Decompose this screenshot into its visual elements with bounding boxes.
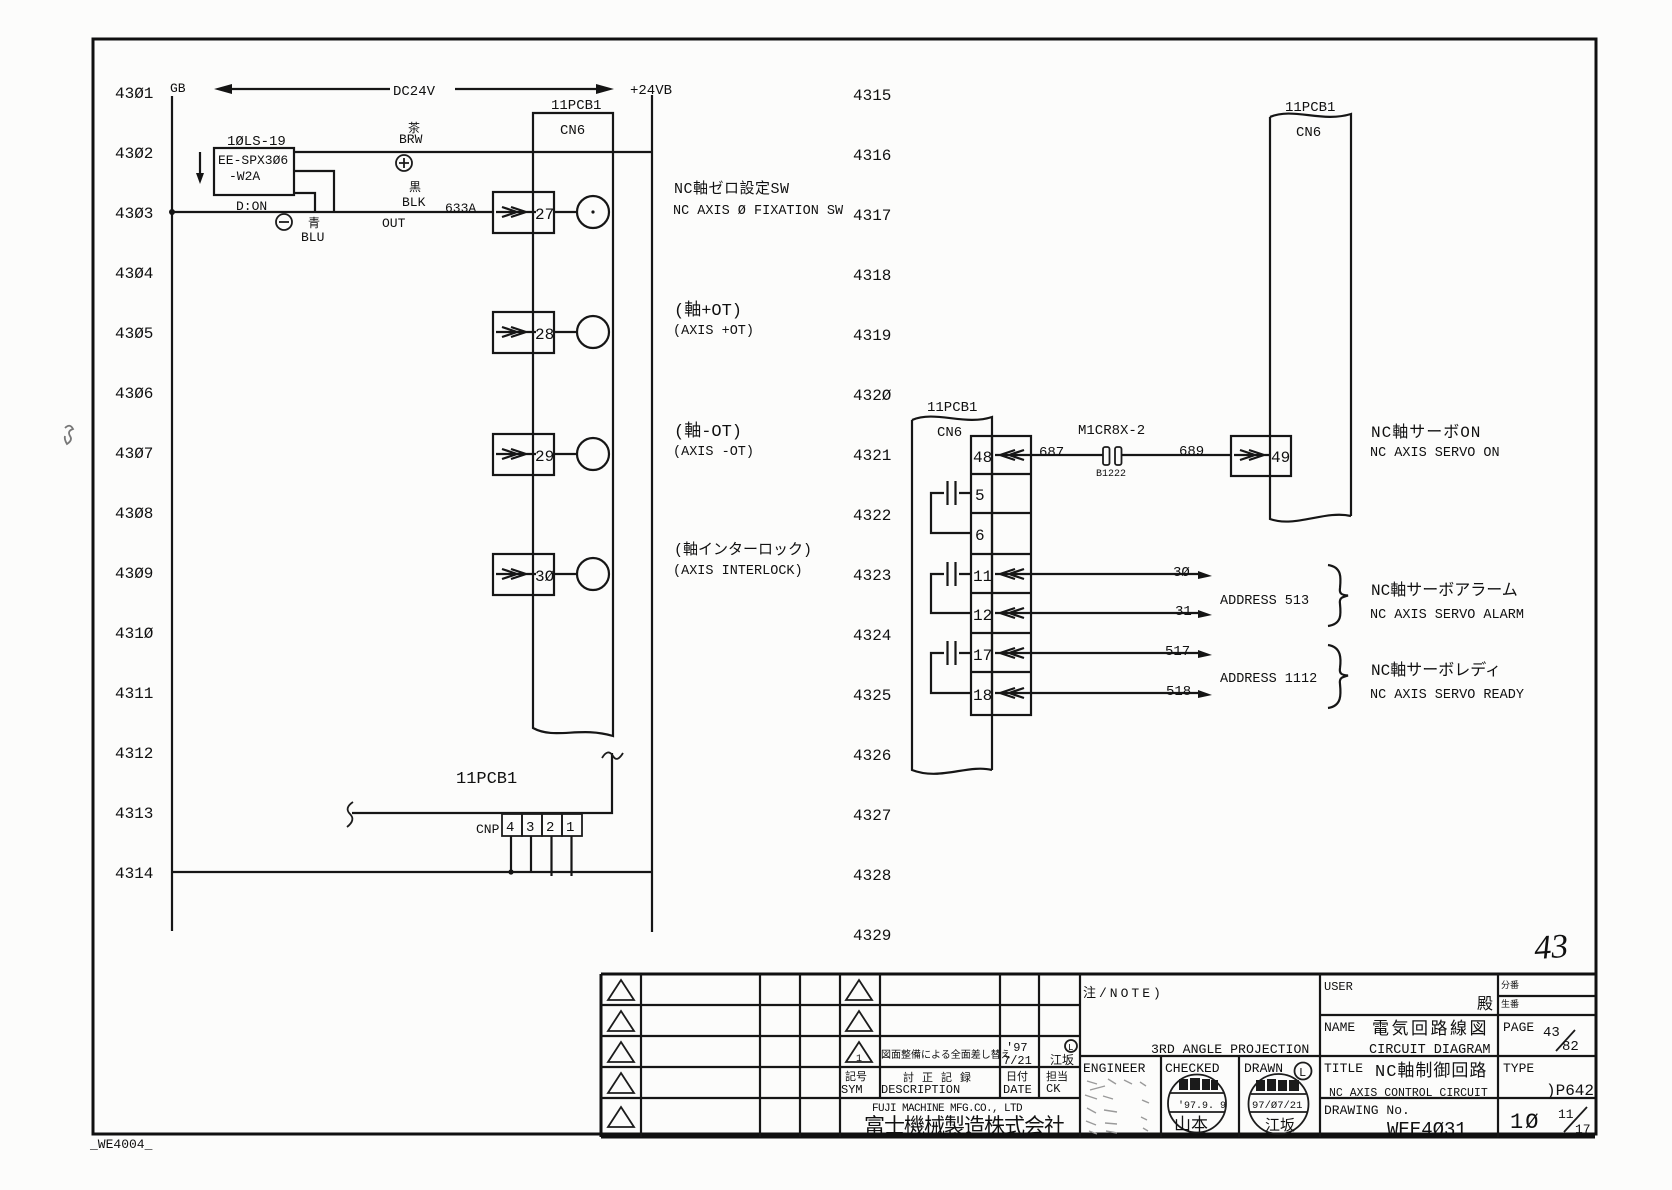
svg-text:-W2A: -W2A [229, 169, 260, 184]
svg-text:(AXIS +OT): (AXIS +OT) [673, 324, 754, 339]
svg-text:NC軸サーボアラーム: NC軸サーボアラーム [1371, 581, 1518, 600]
svg-text:43Ø8: 43Ø8 [115, 505, 153, 523]
connector CNP pin 2 [542, 814, 562, 836]
svg-text:OUT: OUT [382, 216, 406, 231]
revision triangle M1 [846, 980, 872, 1000]
note cell bottom line [1080, 1055, 1595, 1057]
svg-text:(軸インターロック): (軸インターロック) [674, 541, 812, 559]
svg-text:NC AXIS SERVO ALARM: NC AXIS SERVO ALARM [1370, 608, 1524, 623]
sensor beam down arrow [199, 152, 201, 178]
svg-text:4313: 4313 [115, 805, 153, 823]
svg-text:29: 29 [535, 448, 554, 466]
svg-text:4323: 4323 [853, 567, 891, 585]
svg-text:青: 青 [308, 216, 320, 231]
indicator circle pin 27 [577, 196, 609, 228]
arrowhead wire 31 [1198, 610, 1212, 618]
engineer pencil scribbles [1085, 1079, 1149, 1134]
svg-text:CHECKED: CHECKED [1165, 1061, 1220, 1076]
revision CK circled L [1065, 1040, 1077, 1052]
brace servo alarm [1328, 565, 1348, 626]
wire BLU lead from sensor bottom [294, 193, 315, 212]
chevron into pin 29 [496, 449, 536, 459]
wire pin30 to lamp [554, 573, 577, 575]
chevron out of pin 11 [995, 569, 1031, 579]
arrowhead wire 517 [1198, 650, 1212, 658]
svg-text:49: 49 [1271, 449, 1290, 467]
revision triangle L3 [608, 1042, 634, 1062]
svg-text:431Ø: 431Ø [115, 625, 154, 643]
svg-text:27: 27 [535, 206, 554, 224]
svg-text:1Ø: 1Ø [1510, 1110, 1540, 1135]
svg-text:CN6: CN6 [560, 123, 585, 139]
svg-text:3Ø: 3Ø [1173, 565, 1190, 581]
revision triangle M2 [846, 1011, 872, 1031]
wire GB bus vertical [171, 96, 173, 931]
svg-text:17: 17 [973, 647, 992, 665]
wire pin27 to lamp [554, 211, 577, 213]
svg-text:江坂: 江坂 [1050, 1053, 1074, 1068]
svg-text:11PCB1: 11PCB1 [551, 98, 601, 114]
svg-text:ADDRESS 1112: ADDRESS 1112 [1220, 672, 1317, 687]
brace servo ready [1328, 645, 1348, 708]
connector 11PCB1 CN6 (left tall) [533, 113, 613, 736]
revision triangle L5 [608, 1107, 634, 1127]
wire CNP feed with break marks [352, 753, 612, 813]
wire stub CNP4 [510, 836, 512, 872]
svg-text:82: 82 [1562, 1039, 1579, 1055]
contact bars 5-6 [948, 481, 956, 505]
svg-text:11: 11 [973, 568, 992, 586]
pin box 27 [493, 192, 554, 233]
pin box 29 [493, 434, 554, 475]
wire pin28 to lamp [554, 331, 577, 333]
title block rows left tables [601, 1005, 1080, 1098]
relay contact bars [1103, 447, 1110, 465]
revision triangle M3 with 1 [846, 1042, 872, 1062]
connector CNP pin 4 [502, 814, 522, 836]
svg-text:L: L [1299, 1066, 1306, 1080]
chevron out of pin 12 [995, 608, 1031, 618]
svg-text:17: 17 [1575, 1122, 1591, 1137]
user cell rows [1320, 996, 1595, 1098]
svg-text:BRW: BRW [399, 132, 423, 147]
svg-text:4: 4 [506, 820, 514, 836]
svg-text:DC24V: DC24V [393, 84, 436, 100]
svg-text:GB: GB [170, 81, 186, 96]
svg-text:4327: 4327 [853, 807, 891, 825]
svg-text:43: 43 [1533, 928, 1569, 967]
svg-text:B1222: B1222 [1096, 469, 1126, 480]
svg-text:4326: 4326 [853, 747, 891, 765]
svg-text:DRAWING No.: DRAWING No. [1324, 1103, 1410, 1118]
svg-text:BLU: BLU [301, 230, 324, 245]
svg-text:SYM: SYM [841, 1083, 863, 1097]
svg-text:11: 11 [1558, 1107, 1574, 1122]
svg-text:'97.9. 9: '97.9. 9 [1178, 1100, 1226, 1112]
pin box 49 [1231, 436, 1291, 476]
svg-text:殿: 殿 [1477, 995, 1493, 1014]
break squiggle on horizontal left end [347, 802, 353, 827]
svg-text:3: 3 [526, 820, 534, 836]
connector CNP pin 1 [562, 814, 582, 836]
svg-text:NC軸サーボON: NC軸サーボON [1371, 423, 1481, 442]
svg-text:DESCRIPTION: DESCRIPTION [881, 1083, 960, 1097]
contact link pins 17-18 [931, 653, 971, 693]
svg-text:BLK: BLK [402, 195, 426, 210]
svg-text:518: 518 [1166, 684, 1191, 700]
drawn circled L [1295, 1063, 1312, 1080]
svg-text:(軸+OT): (軸+OT) [674, 300, 742, 321]
stamp DRAWN circle [1249, 1074, 1309, 1134]
svg-text:43Ø6: 43Ø6 [115, 385, 153, 403]
svg-text:NC AXIS SERVO READY: NC AXIS SERVO READY [1370, 688, 1524, 703]
svg-text:(AXIS INTERLOCK): (AXIS INTERLOCK) [673, 564, 803, 579]
minus terminal symbol [276, 214, 292, 230]
wire pin29 to lamp [554, 453, 577, 455]
pin grid CN6 [971, 436, 1031, 715]
svg-text:富士機械製造株式会社: 富士機械製造株式会社 [864, 1115, 1065, 1140]
wire 517 [1031, 652, 1202, 654]
svg-text:97/Ø7/21: 97/Ø7/21 [1252, 1100, 1302, 1112]
contact bars 17-18 [948, 641, 956, 665]
wire stub CNP2 [550, 836, 552, 876]
contact link pins 11-12 [931, 574, 971, 613]
approval columns [1161, 974, 1498, 1137]
svg-text:48: 48 [973, 449, 992, 467]
svg-text:4324: 4324 [853, 627, 891, 645]
revision triangle L1 [608, 980, 634, 1000]
svg-text:CK: CK [1046, 1082, 1061, 1096]
svg-text:注/NOTE): 注/NOTE) [1083, 986, 1164, 1001]
pin grid inner vertical [991, 436, 993, 715]
wire 633A row 4303 [172, 211, 493, 213]
indicator circle pin 29 [577, 438, 609, 470]
svg-text:CN6: CN6 [1296, 125, 1321, 141]
svg-text:NC軸サーボレディ: NC軸サーボレディ [1371, 660, 1501, 680]
svg-text:NC AXIS CONTROL CIRCUIT: NC AXIS CONTROL CIRCUIT [1329, 1087, 1488, 1100]
chevron into pin 28 [496, 327, 536, 337]
svg-text:生番: 生番 [1501, 998, 1519, 1010]
connector 11PCB1 CN6 (mid block) [912, 417, 992, 774]
break squiggle on vertical [602, 752, 623, 758]
svg-text:NC AXIS SERVO ON: NC AXIS SERVO ON [1370, 446, 1500, 461]
svg-text:517: 517 [1165, 644, 1190, 660]
svg-text:TITLE: TITLE [1324, 1061, 1363, 1076]
svg-text:DATE: DATE [1003, 1083, 1032, 1097]
svg-text:4316: 4316 [853, 147, 891, 165]
stamp CHECKED dept jp [1179, 1078, 1218, 1090]
svg-text:7/21: 7/21 [1003, 1054, 1032, 1068]
svg-text:432Ø: 432Ø [853, 387, 892, 405]
svg-text:(AXIS -OT): (AXIS -OT) [673, 445, 754, 460]
arrowhead wire 518 [1198, 690, 1212, 698]
svg-text:山本: 山本 [1174, 1115, 1208, 1136]
svg-text:WEE4Ø31: WEE4Ø31 [1387, 1119, 1467, 1141]
svg-text:4311: 4311 [115, 685, 153, 703]
svg-text:4329: 4329 [853, 927, 891, 945]
svg-text:1: 1 [566, 820, 574, 836]
junction dot GB x 4303 [169, 209, 175, 215]
svg-text:11PCB1: 11PCB1 [456, 770, 517, 789]
svg-text:NAME: NAME [1324, 1020, 1355, 1035]
connector 11PCB1 CN6 (right tall) [1270, 114, 1351, 522]
revision triangle L4 [608, 1073, 634, 1093]
svg-text:43Ø1: 43Ø1 [115, 85, 153, 103]
arrowhead DC24V left [214, 84, 232, 94]
svg-text:江坂: 江坂 [1265, 1117, 1295, 1135]
wire row 4314 [172, 871, 652, 873]
pin box 28 [493, 312, 554, 353]
arrowhead DC24V right [596, 84, 614, 94]
svg-text:2: 2 [546, 820, 554, 836]
svg-text:4325: 4325 [853, 687, 891, 705]
svg-text:TYPE: TYPE [1503, 1061, 1534, 1076]
svg-text:43Ø7: 43Ø7 [115, 445, 153, 463]
svg-text:18: 18 [973, 687, 992, 705]
connector CNP pin 3 [522, 814, 542, 836]
wire stub CNP3 [530, 836, 532, 872]
indicator circle pin 30 [577, 558, 609, 590]
wire 31 [1031, 612, 1202, 614]
plus terminal symbol [396, 155, 412, 171]
svg-text:4319: 4319 [853, 327, 891, 345]
svg-text:43Ø4: 43Ø4 [115, 265, 153, 283]
svg-text:4328: 4328 [853, 867, 891, 885]
svg-text:NC軸制御回路: NC軸制御回路 [1375, 1061, 1487, 1082]
wire 689 [1122, 454, 1232, 456]
wire 30 [1031, 573, 1202, 575]
svg-text:日付: 日付 [1006, 1070, 1028, 1084]
wire BLK output from sensor [294, 171, 334, 212]
contact bars 11-12 [948, 562, 956, 586]
svg-text:NC軸ゼロ設定SW: NC軸ゼロ設定SW [674, 180, 790, 198]
svg-text:FUJI MACHINE MFG.CO., LTD: FUJI MACHINE MFG.CO., LTD [872, 1103, 1023, 1115]
wire DC24V span arrow [226, 88, 602, 90]
wire 687 [1031, 454, 1103, 456]
svg-text:43: 43 [1543, 1025, 1560, 1041]
sensor EE-SPX306-W2A body [214, 148, 294, 195]
stamp CHECKED circle [1168, 1075, 1226, 1133]
svg-text:ADDRESS 513: ADDRESS 513 [1220, 594, 1309, 609]
arrowhead wire 30 [1198, 571, 1212, 579]
wire stub CNP1 [570, 836, 572, 876]
svg-text:3RD ANGLE PROJECTION: 3RD ANGLE PROJECTION [1151, 1042, 1309, 1057]
svg-text:12: 12 [973, 607, 992, 625]
svg-text:M1CR8X-2: M1CR8X-2 [1078, 423, 1145, 439]
svg-text:電気回路線図: 電気回路線図 [1372, 1019, 1489, 1040]
svg-text:図面整備による全面差し替え: 図面整備による全面差し替え [881, 1048, 1011, 1062]
svg-text:4318: 4318 [853, 267, 891, 285]
svg-text:4322: 4322 [853, 507, 891, 525]
svg-text:黒: 黒 [409, 180, 421, 195]
chevron into pin 49 [1234, 450, 1271, 460]
svg-text:_WE4004_: _WE4004_ [89, 1137, 153, 1152]
svg-text:記号: 記号 [845, 1069, 867, 1084]
svg-text:43Ø9: 43Ø9 [115, 565, 153, 583]
svg-text:43Ø3: 43Ø3 [115, 205, 153, 223]
svg-text:L: L [1068, 1043, 1073, 1053]
svg-text:4315: 4315 [853, 87, 891, 105]
svg-text:4321: 4321 [853, 447, 891, 465]
svg-text:CIRCUIT DIAGRAM: CIRCUIT DIAGRAM [1369, 1043, 1491, 1058]
title block outer [601, 974, 1595, 1137]
indicator circle pin 28 [577, 316, 609, 348]
svg-text:11PCB1: 11PCB1 [1285, 100, 1335, 116]
title block verticals left tables [641, 974, 1080, 1137]
svg-text:6: 6 [975, 527, 985, 545]
svg-text:633A: 633A [445, 201, 476, 216]
svg-text:)P642: )P642 [1546, 1082, 1594, 1100]
svg-text:28: 28 [535, 326, 554, 344]
wire 518 [1031, 692, 1202, 694]
svg-text:689: 689 [1179, 444, 1204, 460]
svg-text:43Ø5: 43Ø5 [115, 325, 153, 343]
svg-text:1: 1 [856, 1054, 862, 1065]
wire +24VB bus vertical [651, 95, 653, 932]
svg-text:'97: '97 [1006, 1041, 1028, 1055]
svg-text:NC AXIS Ø FIXATION SW: NC AXIS Ø FIXATION SW [673, 204, 844, 219]
svg-text:CN6: CN6 [937, 425, 962, 441]
svg-text:31: 31 [1175, 604, 1192, 620]
svg-text:5: 5 [975, 487, 985, 505]
stamp DRAWN dept jp [1256, 1079, 1299, 1091]
svg-text:ENGINEER: ENGINEER [1083, 1061, 1146, 1076]
svg-text:CNP: CNP [476, 822, 500, 837]
svg-text:USER: USER [1324, 980, 1353, 994]
svg-text:(軸-OT): (軸-OT) [674, 421, 742, 442]
pin grid dividers [971, 474, 1031, 672]
chevron into pin 30 [496, 569, 536, 579]
chevron into pin 27 [496, 207, 536, 217]
svg-text:EE-SPX3Ø6: EE-SPX3Ø6 [218, 153, 288, 168]
revision triangle L2 [608, 1011, 634, 1031]
svg-text:11PCB1: 11PCB1 [927, 400, 977, 416]
svg-text:分番: 分番 [1501, 979, 1519, 991]
contact link pins 5-6 [931, 493, 971, 533]
left margin smudge mark [65, 426, 73, 444]
svg-text:PAGE: PAGE [1503, 1020, 1534, 1035]
pin box 30 [493, 554, 554, 595]
svg-text:4312: 4312 [115, 745, 153, 763]
chevron out of pin 17 [995, 648, 1031, 658]
chevron out of pin 48 [995, 450, 1031, 460]
svg-text:43Ø2: 43Ø2 [115, 145, 153, 163]
svg-text:3Ø: 3Ø [535, 568, 555, 586]
svg-text:4314: 4314 [115, 865, 153, 883]
svg-text:4317: 4317 [853, 207, 891, 225]
wire BRW brown lead 4302 [294, 151, 652, 153]
svg-text:687: 687 [1039, 445, 1064, 461]
junction dot CNP4 x 4314 [508, 869, 513, 874]
chevron out of pin 18 [995, 688, 1031, 698]
